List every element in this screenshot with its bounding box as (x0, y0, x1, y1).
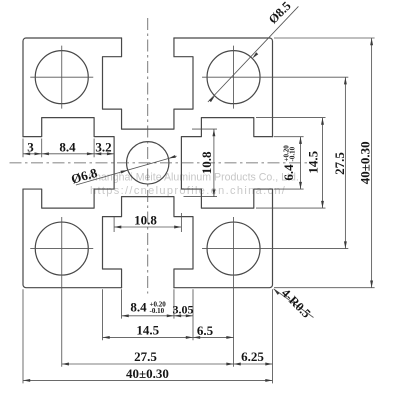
leader line Ø6.8 (76, 156, 177, 185)
ext line cavity left bottom (102, 289, 104, 340)
ext lines core height (192, 128, 217, 130)
svg-text:8.4: 8.4 (130, 299, 147, 314)
top T-slot cavity (103, 38, 194, 129)
svg-text:14.5: 14.5 (136, 322, 159, 337)
dim line 40 right (371, 38, 373, 288)
arrows 3 (23, 152, 30, 155)
svg-text:40±0.30: 40±0.30 (126, 366, 169, 381)
leader arrow Ø8.5 upper (251, 52, 258, 59)
ext lines core width (113, 217, 115, 232)
dim line 3/8.4/3.2 (23, 153, 114, 155)
dim line 8.4 bottom (122, 315, 193, 317)
ext line right face down (272, 289, 274, 383)
corner hole top-right Ø8.5 (207, 51, 260, 104)
ext lines bottom row1 (121, 289, 123, 318)
label 6.4 tol (281, 145, 297, 181)
left T-slot cavity (23, 118, 114, 209)
vertical centerline (147, 18, 149, 294)
svg-text:27.5: 27.5 (332, 152, 347, 175)
arrows 10.8 bottom (114, 226, 121, 229)
center hole Ø6.8 (127, 142, 169, 184)
crosshair bottom-right hole (202, 217, 348, 367)
svg-text:40±0.30: 40±0.30 (357, 141, 372, 184)
arrows 3.05 (174, 314, 181, 317)
arrows 6.4 (299, 137, 302, 144)
arrows 10.8 right (212, 129, 215, 136)
leader arrow Ø6.8 right (168, 155, 176, 160)
arrows 27.5 bottom (62, 363, 69, 366)
svg-text:14.5: 14.5 (306, 150, 321, 173)
corner hole bottom-left Ø8.5 (35, 222, 88, 275)
ext lines right col1 (274, 136, 304, 138)
label Ø8.5 (266, 0, 294, 27)
dim line 6.4 (300, 137, 302, 189)
svg-text:10.8: 10.8 (134, 212, 157, 227)
arrows 14.5 bottom (103, 336, 110, 339)
svg-text:6.25: 6.25 (241, 349, 264, 364)
label 4-R0.5 (279, 286, 314, 321)
dim line 27.5 bottom (62, 363, 273, 365)
svg-text:Shanghai Meite Aluminum Produc: Shanghai Meite Aluminum Products Co., Lt… (88, 172, 299, 184)
dim line 10.8 bottom (114, 226, 181, 228)
dim line 14.5 right (322, 118, 324, 209)
profile outer outline (23, 38, 273, 288)
arrows 27.5 right (344, 77, 347, 84)
arrows 40 bottom (23, 379, 30, 382)
crosshair top-right hole (202, 46, 348, 109)
leader line Ø8.5 (208, 6, 299, 102)
arrows 8.4 (42, 152, 49, 155)
label Ø6.8 (69, 165, 99, 187)
label 14.5 right (306, 150, 321, 173)
svg-text:6.5: 6.5 (197, 323, 214, 338)
leader arrow Ø8.5 lower (209, 95, 216, 102)
leader line 4-R0.5 (274, 289, 314, 318)
dim line 40 bottom (23, 379, 273, 381)
ext lines right col2 (256, 117, 326, 119)
svg-text:10.8: 10.8 (199, 151, 214, 174)
ext lines left dims (22, 139, 24, 158)
dim line 27.5 right (344, 77, 346, 248)
svg-text:27.5: 27.5 (134, 349, 157, 364)
leader arrow Ø6.8 left (120, 169, 128, 174)
svg-text:8.4: 8.4 (59, 140, 76, 155)
horizontal centerline (10, 162, 309, 164)
crosshair top-left hole (30, 46, 93, 109)
crosshair bottom-left hole (30, 217, 93, 367)
arrows 6.25 (234, 363, 241, 366)
arrows 6.5 (193, 336, 200, 339)
arrows 14.5 right (321, 118, 324, 125)
arrows 3.2 (94, 152, 101, 155)
ext line left face down (22, 289, 24, 383)
svg-text:3.05: 3.05 (173, 302, 194, 316)
arrows 40 right (370, 38, 373, 45)
label 40 right (357, 141, 372, 184)
label 27.5 right (332, 152, 347, 175)
svg-text:+0.20-0.10: +0.20-0.10 (150, 301, 167, 315)
leader arrow 4-R0.5 (273, 288, 280, 295)
right T-slot cavity (181, 118, 272, 209)
arrows 8.4 bottom (122, 314, 129, 317)
corner hole bottom-right Ø8.5 (207, 222, 260, 275)
svg-text:+0.20-0.10: +0.20-0.10 (282, 145, 296, 162)
svg-text:6.4: 6.4 (281, 164, 296, 181)
bottom T-slot cavity (103, 197, 194, 288)
corner hole top-left Ø8.5 (35, 51, 88, 104)
ext line bottom face right (274, 287, 375, 289)
ext line top face right (274, 37, 375, 39)
svg-text:3.2: 3.2 (95, 140, 111, 155)
svg-text:https://cneluprofile.en.china.: https://cneluprofile.en.china.cn/ (90, 185, 286, 197)
dim line 14.5 bottom (103, 336, 234, 338)
label 10.8 right (199, 151, 214, 174)
svg-text:3: 3 (27, 140, 34, 155)
dim line 10.8 right (213, 129, 215, 197)
